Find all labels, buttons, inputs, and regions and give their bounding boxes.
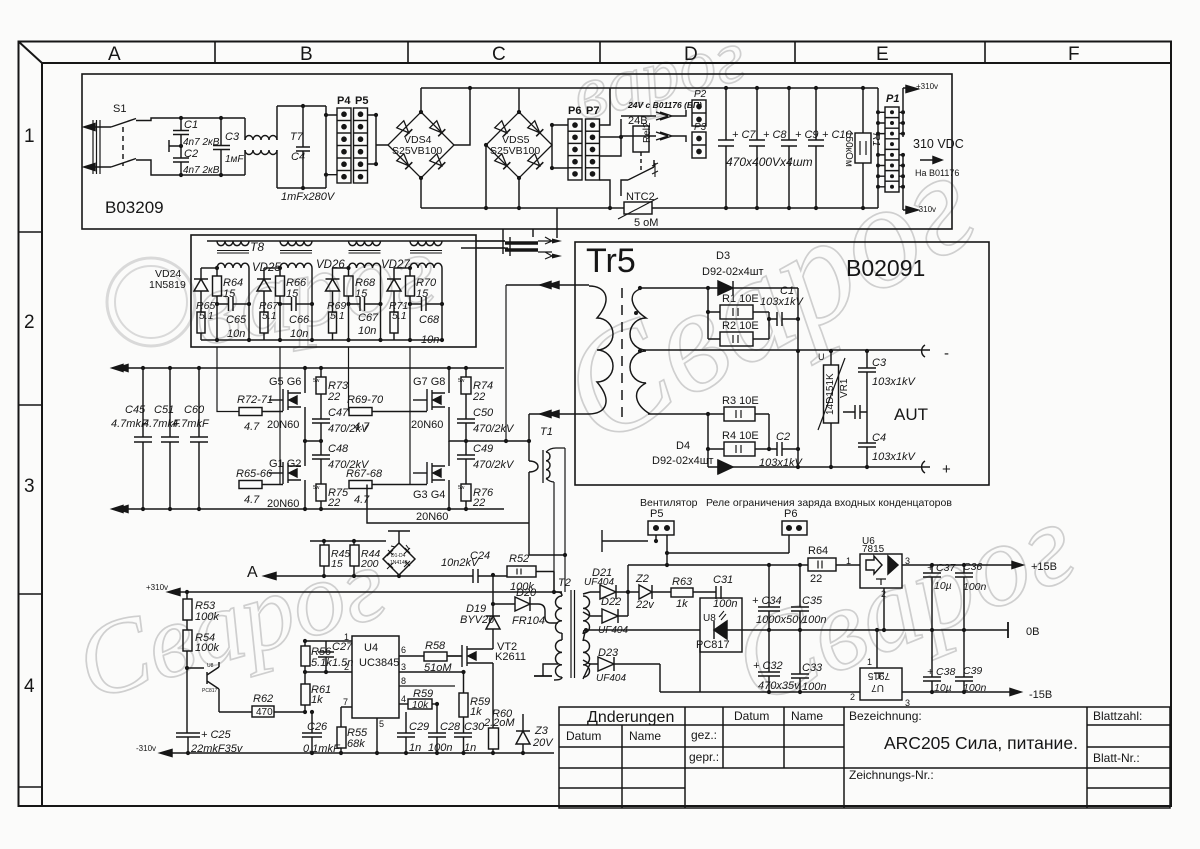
svg-text:2: 2	[24, 312, 35, 333]
svg-text:10n: 10n	[227, 328, 245, 340]
svg-text:Реле ограничения заряда входны: Реле ограничения заряда входных конденца…	[706, 497, 952, 509]
svg-text:D1-D4: D1-D4	[391, 553, 406, 559]
svg-text:Datum: Datum	[734, 709, 769, 723]
svg-text:P6: P6	[784, 508, 797, 520]
svg-text:3: 3	[24, 476, 35, 497]
svg-text:15: 15	[331, 558, 343, 570]
svg-text:+15B: +15B	[1031, 561, 1057, 573]
svg-text:10n: 10n	[290, 328, 308, 340]
svg-text:22: 22	[327, 497, 340, 509]
svg-text:C33: C33	[802, 662, 823, 674]
svg-text:51oМ: 51oМ	[424, 662, 452, 674]
svg-text:4.7: 4.7	[244, 494, 260, 506]
svg-text:470/2kV: 470/2kV	[328, 423, 370, 435]
svg-text:D: D	[684, 44, 698, 65]
svg-text:150кОм: 150кОм	[843, 131, 854, 167]
svg-text:5w: 5w	[313, 378, 320, 384]
svg-text:5w: 5w	[458, 485, 465, 491]
svg-text:+310v: +310v	[916, 82, 938, 91]
svg-text:D3: D3	[716, 250, 730, 262]
svg-text:2: 2	[850, 692, 855, 702]
svg-text:C4: C4	[872, 432, 886, 444]
svg-text:1k: 1k	[311, 694, 323, 706]
svg-text:C26: C26	[307, 721, 328, 733]
svg-text:Blatt-Nr.:: Blatt-Nr.:	[1093, 751, 1140, 765]
svg-text:-310v: -310v	[916, 205, 936, 214]
svg-text:C39: C39	[963, 665, 982, 677]
svg-text:22mkF35v: 22mkF35v	[190, 743, 244, 755]
svg-text:D20: D20	[516, 587, 537, 599]
svg-text:Z3: Z3	[534, 725, 549, 737]
svg-text:U4: U4	[364, 642, 378, 654]
svg-text:5.1: 5.1	[199, 310, 214, 322]
svg-text:BYV26: BYV26	[460, 614, 495, 626]
svg-text:U8: U8	[703, 613, 716, 624]
svg-text:R69-70: R69-70	[347, 394, 384, 406]
svg-text:C2: C2	[776, 431, 790, 443]
svg-text:100k: 100k	[195, 611, 219, 623]
svg-text:C35: C35	[802, 595, 823, 607]
svg-text:4: 4	[24, 676, 35, 697]
svg-text:15: 15	[223, 288, 236, 300]
svg-text:PC817: PC817	[696, 639, 730, 651]
svg-text:100n: 100n	[802, 614, 826, 626]
svg-text:5w: 5w	[458, 378, 465, 384]
svg-text:100n: 100n	[963, 581, 987, 593]
svg-text:VR1: VR1	[839, 378, 850, 398]
svg-text:Вентилятор: Вентилятор	[640, 497, 698, 509]
svg-text:P1: P1	[886, 93, 899, 105]
svg-text:C30: C30	[464, 721, 485, 733]
svg-text:5.1: 5.1	[392, 310, 407, 322]
svg-text:C60: C60	[184, 404, 205, 416]
svg-text:D22: D22	[601, 596, 621, 608]
svg-text:+: +	[942, 461, 951, 478]
svg-text:PC817: PC817	[202, 688, 218, 694]
svg-text:20V: 20V	[532, 737, 554, 749]
svg-text:470: 470	[256, 707, 273, 718]
svg-text:103x1kV: 103x1kV	[760, 296, 804, 308]
svg-text:10k: 10k	[412, 700, 429, 711]
svg-text:10µ: 10µ	[934, 580, 952, 592]
svg-text:T8: T8	[250, 240, 264, 254]
svg-text:22: 22	[472, 497, 485, 509]
svg-text:-310v: -310v	[136, 744, 156, 753]
svg-text:310 VDC: 310 VDC	[913, 137, 964, 151]
svg-text:+ C37: + C37	[927, 562, 956, 574]
svg-text:C49: C49	[473, 443, 493, 455]
svg-text:+ C8: + C8	[763, 129, 787, 141]
svg-text:6: 6	[401, 645, 406, 655]
svg-text:C66: C66	[289, 314, 310, 326]
svg-text:1n: 1n	[409, 742, 421, 754]
svg-text:C1: C1	[184, 119, 198, 131]
svg-text:22: 22	[327, 391, 340, 403]
svg-text:C45: C45	[125, 404, 146, 416]
svg-text:4: 4	[401, 694, 406, 704]
svg-text:4.7: 4.7	[244, 421, 260, 433]
svg-text:Zeichnungs-Nr.:: Zeichnungs-Nr.:	[849, 768, 934, 782]
svg-text:68k: 68k	[347, 738, 365, 750]
svg-text:20N60: 20N60	[267, 498, 299, 510]
svg-text:T7: T7	[290, 131, 304, 143]
svg-text:Blattzahl:: Blattzahl:	[1093, 709, 1142, 723]
svg-text:R63: R63	[672, 576, 693, 588]
svg-text:100k: 100k	[195, 642, 219, 654]
svg-text:U7: U7	[871, 682, 884, 693]
svg-text:1: 1	[867, 657, 872, 667]
svg-text:470x400Vx4шт: 470x400Vx4шт	[726, 155, 813, 169]
svg-text:7815: 7815	[862, 544, 885, 555]
svg-text:D92-02x4шт: D92-02x4шт	[652, 455, 714, 467]
svg-text:100n: 100n	[963, 682, 987, 694]
svg-text:R65-66: R65-66	[236, 468, 273, 480]
svg-text:C48: C48	[328, 443, 349, 455]
svg-text:R1: R1	[870, 133, 882, 146]
svg-text:T2: T2	[558, 577, 571, 589]
svg-text:1: 1	[344, 632, 349, 642]
svg-text:20N60: 20N60	[411, 419, 443, 431]
svg-text:AUT: AUT	[894, 405, 928, 424]
svg-text:VD25: VD25	[252, 262, 281, 274]
svg-text:B: B	[300, 44, 313, 65]
svg-text:+310v: +310v	[146, 583, 168, 592]
svg-text:15: 15	[416, 288, 429, 300]
svg-text:B03209: B03209	[105, 198, 164, 217]
svg-text:C24: C24	[470, 550, 490, 562]
svg-text:R59: R59	[413, 688, 433, 700]
svg-text:4.7: 4.7	[354, 494, 370, 506]
svg-text:gepr.:: gepr.:	[689, 750, 719, 764]
svg-text:UC3845: UC3845	[359, 657, 399, 669]
svg-text:C65: C65	[226, 314, 247, 326]
svg-text:G3 G4: G3 G4	[413, 489, 445, 501]
svg-text:D4: D4	[676, 440, 690, 452]
svg-text:G1 G2: G1 G2	[269, 458, 301, 470]
svg-text:5 oМ: 5 oМ	[634, 217, 658, 229]
svg-text:ARC205 Сила, питание.: ARC205 Сила, питание.	[884, 733, 1078, 753]
svg-text:20N60: 20N60	[416, 511, 448, 523]
svg-text:22v: 22v	[635, 599, 655, 611]
svg-text:Name: Name	[629, 729, 661, 743]
svg-text:1: 1	[24, 126, 35, 147]
svg-text:UF404: UF404	[596, 673, 626, 684]
svg-text:3: 3	[905, 698, 910, 708]
svg-text:D92-02x4шт: D92-02x4шт	[702, 266, 764, 278]
svg-text:R3 10E: R3 10E	[722, 395, 759, 407]
svg-text:20N60: 20N60	[267, 419, 299, 431]
svg-text:U: U	[818, 352, 825, 362]
svg-text:S25VB100: S25VB100	[490, 145, 540, 157]
svg-text:103x1kV: 103x1kV	[872, 376, 916, 388]
svg-text:22: 22	[810, 573, 822, 585]
svg-text:5w: 5w	[313, 485, 320, 491]
svg-text:R72-71: R72-71	[237, 394, 273, 406]
svg-text:1мF: 1мF	[225, 154, 244, 165]
svg-text:Дnderungen: Дnderungen	[587, 709, 674, 726]
svg-text:4n7 2кВ: 4n7 2кВ	[183, 137, 220, 148]
svg-text:C: C	[492, 44, 506, 65]
svg-text:+ C9: + C9	[795, 129, 819, 141]
svg-text:Tr5: Tr5	[586, 242, 636, 280]
svg-text:22: 22	[472, 391, 485, 403]
svg-text:P5: P5	[355, 95, 368, 107]
svg-text:4.7mkF: 4.7mkF	[172, 418, 210, 430]
svg-text:1000x50v: 1000x50v	[756, 614, 805, 626]
svg-text:7: 7	[343, 697, 348, 707]
svg-text:1N4148: 1N4148	[390, 560, 408, 566]
svg-text:100n: 100n	[428, 742, 452, 754]
svg-text:+ C32: + C32	[753, 660, 783, 672]
svg-text:5.1k: 5.1k	[311, 657, 332, 669]
svg-text:P2: P2	[694, 89, 707, 100]
svg-text:0.1mkF: 0.1mkF	[303, 743, 341, 755]
svg-text:3: 3	[905, 556, 910, 566]
svg-text:R2 10E: R2 10E	[722, 320, 759, 332]
svg-text:5.1: 5.1	[262, 310, 277, 322]
svg-text:C68: C68	[419, 314, 440, 326]
svg-text:1k: 1k	[470, 706, 482, 718]
svg-text:NTC2: NTC2	[626, 191, 655, 203]
svg-text:3: 3	[401, 662, 406, 672]
svg-text:2: 2	[881, 589, 886, 599]
svg-text:Bezeichnung:: Bezeichnung:	[849, 709, 922, 723]
svg-text:C31: C31	[713, 574, 733, 586]
svg-text:K2611: K2611	[495, 651, 526, 663]
svg-text:103x1kV: 103x1kV	[759, 457, 803, 469]
svg-text:10µ: 10µ	[934, 682, 952, 694]
svg-text:Z2: Z2	[635, 573, 649, 585]
svg-text:C2: C2	[184, 148, 198, 160]
svg-text:UF404: UF404	[598, 625, 628, 636]
svg-text:R1 10E: R1 10E	[722, 293, 759, 305]
svg-text:U8: U8	[207, 663, 214, 669]
svg-text:P3: P3	[694, 122, 707, 133]
svg-text:P6: P6	[568, 105, 581, 117]
svg-text:S1: S1	[113, 103, 126, 115]
svg-text:gez.:: gez.:	[691, 728, 717, 742]
svg-text:15: 15	[355, 288, 368, 300]
svg-text:A: A	[108, 44, 121, 65]
svg-text:R4 10E: R4 10E	[722, 430, 759, 442]
svg-text:+ C38: + C38	[927, 666, 955, 678]
svg-text:+ C7: + C7	[732, 129, 756, 141]
svg-text:C3: C3	[225, 131, 240, 143]
svg-text:T1: T1	[540, 426, 553, 438]
svg-text:7915: 7915	[867, 670, 890, 681]
svg-text:103x1kV: 103x1kV	[872, 451, 916, 463]
svg-text:C28: C28	[440, 721, 461, 733]
svg-text:C27: C27	[332, 641, 353, 653]
svg-text:C50: C50	[473, 407, 494, 419]
svg-text:5.1: 5.1	[330, 310, 345, 322]
svg-text:100n: 100n	[802, 681, 826, 693]
svg-text:1: 1	[846, 556, 851, 566]
svg-text:C29: C29	[409, 721, 429, 733]
svg-text:1n: 1n	[464, 742, 476, 754]
svg-text:15: 15	[286, 288, 299, 300]
svg-text:E: E	[876, 44, 889, 65]
svg-text:C67: C67	[358, 312, 379, 324]
svg-text:1mFx280V: 1mFx280V	[281, 191, 336, 203]
svg-text:1N5819: 1N5819	[149, 279, 186, 291]
svg-text:P4: P4	[337, 95, 351, 107]
svg-text:S25VB100: S25VB100	[392, 145, 442, 157]
svg-text:G5 G6: G5 G6	[269, 376, 301, 388]
svg-text:R64: R64	[808, 545, 828, 557]
svg-text:D23: D23	[598, 647, 619, 659]
svg-text:470/2kV: 470/2kV	[473, 459, 515, 471]
svg-text:2.2oМ: 2.2oМ	[483, 717, 515, 729]
svg-text:VD27: VD27	[381, 259, 410, 271]
svg-text:470x35v: 470x35v	[758, 680, 801, 692]
svg-text:1.5n: 1.5n	[332, 657, 353, 669]
svg-text:UF404: UF404	[584, 577, 614, 588]
svg-text:A: A	[247, 564, 258, 581]
svg-text:F: F	[1068, 44, 1080, 65]
svg-text:14D151K: 14D151K	[825, 373, 836, 415]
svg-text:Name: Name	[791, 709, 823, 723]
svg-text:2: 2	[344, 662, 349, 672]
svg-text:8: 8	[401, 676, 406, 686]
svg-text:C4: C4	[291, 151, 305, 163]
svg-text:200: 200	[360, 558, 379, 570]
svg-text:C47: C47	[328, 407, 349, 419]
svg-text:470/2kV: 470/2kV	[473, 423, 515, 435]
svg-text:Datum: Datum	[566, 729, 601, 743]
svg-text:-15B: -15B	[1029, 689, 1052, 701]
svg-text:+ C25: + C25	[201, 729, 232, 741]
svg-text:-: -	[944, 345, 949, 362]
svg-text:C51: C51	[154, 404, 174, 416]
svg-text:B02091: B02091	[846, 255, 925, 281]
svg-text:R52: R52	[509, 553, 529, 565]
svg-text:470/2kV: 470/2kV	[328, 459, 370, 471]
svg-text:VD26: VD26	[316, 259, 345, 271]
svg-text:4n7 2кВ: 4n7 2кВ	[183, 165, 220, 176]
svg-text:R62: R62	[253, 693, 273, 705]
svg-text:24V с B01176 (БП): 24V с B01176 (БП)	[627, 100, 702, 110]
svg-text:P5: P5	[650, 508, 663, 520]
svg-text:Rel2: Rel2	[642, 122, 653, 143]
svg-text:10n: 10n	[358, 325, 376, 337]
svg-text:1k: 1k	[676, 598, 688, 610]
svg-text:R58: R58	[425, 640, 446, 652]
svg-text:C3: C3	[872, 357, 887, 369]
svg-text:C36: C36	[963, 561, 982, 573]
svg-text:На B01176: На B01176	[915, 168, 959, 178]
svg-text:5: 5	[379, 719, 384, 729]
svg-text:100n: 100n	[713, 598, 737, 610]
svg-text:G7 G8: G7 G8	[413, 376, 445, 388]
svg-text:0B: 0B	[1026, 626, 1039, 638]
svg-text:FR104: FR104	[512, 615, 545, 627]
svg-text:P7: P7	[586, 105, 599, 117]
svg-text:10n: 10n	[421, 334, 439, 346]
svg-text:+ C34: + C34	[752, 595, 782, 607]
